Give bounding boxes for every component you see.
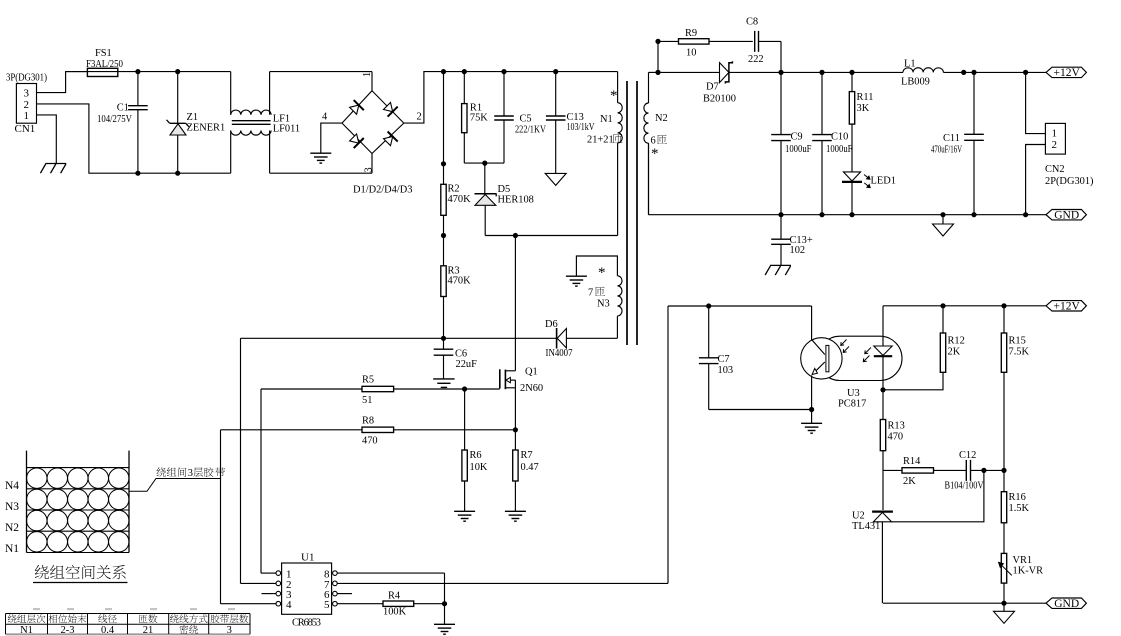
wire CS net R8 <box>221 429 363 431</box>
winding stack diagram <box>27 451 130 553</box>
svg-text:C9: C9 <box>791 132 803 143</box>
svg-text:N4: N4 <box>5 480 19 492</box>
inductor LF1 LF011 common-mode choke <box>231 72 300 174</box>
U1 pin 8 <box>333 571 445 576</box>
winding N2 6turns <box>644 72 668 214</box>
wire DC rail C5 to C13 <box>504 71 556 73</box>
svg-text:75K: 75K <box>470 113 488 124</box>
resistor R5 51 <box>362 375 500 406</box>
node junction VR1 gnd <box>1001 601 1006 606</box>
capacitor C8 222 <box>746 17 781 73</box>
svg-text:N3: N3 <box>5 501 19 513</box>
wire bottom rail C1 to Z1 <box>138 172 178 174</box>
capacitor C7 103 <box>699 306 733 410</box>
diode D2 bridge top-right arm <box>384 103 398 117</box>
U1 pin 3 stub <box>262 591 281 596</box>
node junction Z1 bottom <box>175 171 180 176</box>
diode D3 bridge bottom-right arm <box>384 132 398 146</box>
wire secondary gnd rail <box>649 214 1047 216</box>
svg-text:470: 470 <box>888 432 904 443</box>
capacitor C10 1000uF <box>812 72 852 214</box>
svg-text:N2: N2 <box>655 113 668 124</box>
wire top rail fuse to C1 <box>117 71 138 73</box>
bridge pin 3 label <box>364 167 375 172</box>
table border <box>6 608 251 636</box>
svg-text:R9: R9 <box>685 28 697 39</box>
svg-text:CR6853: CR6853 <box>292 618 321 629</box>
svg-text:1: 1 <box>1052 128 1058 140</box>
svg-text:C1: C1 <box>117 103 129 114</box>
wire bottom rail LF1 to bridge pin3 <box>270 154 372 174</box>
node junction Z1 top <box>175 69 180 74</box>
svg-text:470K: 470K <box>448 276 472 287</box>
flag +12V feedback <box>1046 301 1086 313</box>
svg-text:C8: C8 <box>746 17 758 28</box>
bridge rectifier D1/D2/D4/D3 diamond <box>342 91 404 154</box>
svg-text:3: 3 <box>24 88 30 100</box>
wire bridge pin4 to ground <box>321 112 342 154</box>
svg-text:D7: D7 <box>706 82 719 93</box>
ground earth C13+ <box>765 265 791 275</box>
node junction Q1 drain net <box>513 233 518 238</box>
wire top rail LF1 to bridge pin1 <box>270 72 372 91</box>
flag GND feedback <box>1046 598 1086 610</box>
svg-text:222: 222 <box>748 54 764 65</box>
ground bridge pin4 <box>310 153 331 163</box>
svg-text:FS1: FS1 <box>95 48 112 59</box>
zener Z1 ZENER1 <box>167 72 226 174</box>
wire R1-C5 bottom link <box>464 162 504 164</box>
LED of U3 anode wire <box>882 306 884 346</box>
svg-text:3: 3 <box>188 468 193 479</box>
svg-text:2N60: 2N60 <box>520 383 543 394</box>
svg-text:R6: R6 <box>470 450 482 461</box>
wire N2 bottom corner <box>648 143 650 215</box>
svg-text:5: 5 <box>324 599 330 611</box>
svg-text:2P(DG301): 2P(DG301) <box>1045 176 1094 187</box>
svg-text:R7: R7 <box>521 450 533 461</box>
svg-text:0.47: 0.47 <box>521 462 539 473</box>
wire DC rail R1 to C5 <box>464 71 504 73</box>
winding N3 7turns <box>576 256 622 338</box>
capacitor C5 222/1KV <box>494 72 546 164</box>
label tape note <box>157 467 226 479</box>
node junction C6 top <box>441 336 446 341</box>
svg-text:1.5K: 1.5K <box>1009 503 1030 514</box>
wire CN1 pin1 to ground <box>37 115 57 164</box>
svg-text:F3AL/250: F3AL/250 <box>86 59 123 70</box>
resistor R1 75K <box>462 72 489 164</box>
svg-text:2: 2 <box>1052 139 1058 151</box>
svg-text:R14: R14 <box>903 456 921 467</box>
label N1 row <box>5 543 19 555</box>
node junction C13 top <box>553 69 558 74</box>
svg-text:LF011: LF011 <box>273 124 300 135</box>
fuse FS1 F3AL/250 <box>66 48 138 77</box>
node R9 corner <box>655 39 660 44</box>
svg-text:R4: R4 <box>388 590 401 601</box>
node junction R12 top <box>940 303 945 308</box>
table header row <box>8 614 248 623</box>
wire pin8 to gnd <box>444 573 446 624</box>
svg-text:R13: R13 <box>888 421 905 432</box>
svg-text:GND: GND <box>1054 598 1079 610</box>
wire Q1 drain <box>514 236 516 371</box>
svg-text:R8: R8 <box>362 415 374 426</box>
node junction R11 top <box>849 70 854 75</box>
node junction C10 top <box>819 70 824 75</box>
svg-text:B104/100V: B104/100V <box>945 481 984 492</box>
svg-text:470uF/16V: 470uF/16V <box>931 145 962 156</box>
svg-text:1000uF: 1000uF <box>785 144 812 155</box>
svg-text:1000uF: 1000uF <box>826 144 853 155</box>
wire rail R11 to L1 <box>852 71 903 73</box>
svg-text:4: 4 <box>286 599 292 611</box>
wire top rail Z1 to LF1 <box>178 71 231 73</box>
wire gate net R5 <box>261 388 362 390</box>
svg-text:103: 103 <box>718 365 734 376</box>
wire rail C10 to R11 <box>822 71 852 73</box>
svg-text:VR1: VR1 <box>1013 555 1033 566</box>
U1 pin 5 <box>333 601 383 606</box>
transistor Q1 2N60 MOSFET <box>500 367 543 430</box>
svg-text:C10: C10 <box>831 132 848 143</box>
svg-text:CN1: CN1 <box>15 123 36 135</box>
wire U1 pin1 net riser <box>260 389 262 573</box>
wire C7 bottom link <box>709 409 812 411</box>
svg-text:B20100: B20100 <box>703 94 736 105</box>
svg-text:N1: N1 <box>600 114 613 125</box>
svg-text:N3: N3 <box>597 299 610 310</box>
capacitor C11 470uF/16V <box>931 72 984 214</box>
svg-text:*: * <box>598 265 606 281</box>
svg-text:C7: C7 <box>718 354 730 365</box>
flag +12V output <box>1046 67 1086 79</box>
U1 pin 6 stub <box>333 591 352 596</box>
node junction CN2 pin1 branch <box>1023 70 1028 75</box>
svg-text:3: 3 <box>364 167 375 172</box>
bridge pin 1 label <box>362 72 373 77</box>
svg-text:U1: U1 <box>301 551 314 563</box>
op-amp U1 CR6853 controller <box>282 551 332 628</box>
wire R9 branch riser <box>657 41 659 72</box>
wire TL431 ref link <box>892 470 984 521</box>
resistor R3 470K <box>441 215 471 338</box>
svg-text:4: 4 <box>322 112 328 123</box>
node junction R1 top <box>462 69 467 74</box>
diode D4 bridge bottom-left arm <box>350 134 364 148</box>
wire N2 top to D7 rail <box>649 71 659 73</box>
svg-text:6: 6 <box>651 136 656 147</box>
svg-text:C12: C12 <box>959 450 976 461</box>
resistor R12 2K <box>883 306 965 390</box>
label bridge D1/D2/D4/D3 <box>353 185 412 196</box>
inductor L1 LB009 <box>901 58 1046 87</box>
wire D5/N1 bottom to Q1 drain net <box>485 235 617 237</box>
wire top rail C1 to Z1 <box>138 71 178 73</box>
svg-text:470K: 470K <box>448 194 472 205</box>
label N3 row <box>5 501 19 513</box>
svg-text:2-3: 2-3 <box>61 625 75 636</box>
svg-text:N1: N1 <box>5 543 19 555</box>
wire DC rail C13 to N1 <box>556 71 618 73</box>
svg-text:3: 3 <box>227 625 232 636</box>
svg-text:TL431: TL431 <box>852 521 880 532</box>
ground earth CN1 <box>40 164 66 174</box>
wire +12V rail 2 <box>883 305 1046 307</box>
svg-text:1: 1 <box>362 72 373 77</box>
svg-text:100K: 100K <box>383 607 407 618</box>
svg-text:470: 470 <box>362 436 378 447</box>
wire DC rail to R1 <box>444 71 465 73</box>
svg-text:21: 21 <box>143 625 154 636</box>
U1 pin 7 <box>333 581 668 586</box>
wire CN2 pin1 <box>1026 72 1046 133</box>
node junction gnd tri <box>940 212 945 217</box>
svg-text:22uF: 22uF <box>456 359 478 370</box>
node junction R6 top <box>462 386 467 391</box>
node junction Q1 source <box>513 427 518 432</box>
node junction L1 out <box>961 70 966 75</box>
wire FB net top <box>668 305 812 307</box>
wire CN1 pin3 to fuse <box>37 72 87 93</box>
LED LED1 <box>842 172 896 215</box>
potentiometer VR1 1K-VR <box>999 553 1044 603</box>
resistor R14 2K <box>883 456 966 487</box>
node junction R2-R3 <box>441 233 446 238</box>
svg-text:10K: 10K <box>470 462 488 473</box>
svg-text:C11: C11 <box>943 133 960 144</box>
svg-text:N2: N2 <box>5 522 19 534</box>
diode D6 IN4007 <box>545 319 617 359</box>
capacitor C6 22uF <box>434 338 477 379</box>
ground C6 <box>433 379 454 388</box>
svg-text:3K: 3K <box>857 103 870 114</box>
svg-text:222/1KV: 222/1KV <box>515 124 546 135</box>
ground R6 <box>454 511 475 521</box>
node junction opto emitter <box>809 407 814 412</box>
svg-text:U3: U3 <box>847 388 860 399</box>
leader tape note <box>129 479 221 492</box>
svg-text:7.5K: 7.5K <box>1009 347 1030 358</box>
svg-text:3P(DG301): 3P(DG301) <box>6 72 47 83</box>
svg-text:51: 51 <box>362 395 372 406</box>
svg-text:R5: R5 <box>362 375 374 386</box>
svg-text:LED1: LED1 <box>871 175 896 186</box>
svg-text:*: * <box>610 88 618 104</box>
wire bottom rail Z1 to LF1 <box>178 172 231 174</box>
capacitor C13 103/1kV <box>546 72 595 174</box>
svg-text:*: * <box>651 146 659 162</box>
node junction R4-pin8 <box>442 601 447 606</box>
node junction C12-ref <box>981 468 986 473</box>
svg-text:+12V: +12V <box>1054 301 1081 313</box>
svg-text:R15: R15 <box>1009 336 1026 347</box>
ground opto emitter <box>801 410 822 434</box>
node junction C1 top <box>135 69 140 74</box>
ground triangle C13 <box>545 173 566 185</box>
transformer core <box>627 81 637 345</box>
resistor R9 10 <box>658 28 753 58</box>
capacitor C12 B104/100V <box>945 450 1005 492</box>
svg-text:IN4007: IN4007 <box>546 348 573 359</box>
svg-text:7: 7 <box>588 288 593 299</box>
LED of U3 <box>874 346 892 390</box>
svg-text:D1/D2/D4/D3: D1/D2/D4/D3 <box>353 185 412 196</box>
diode D5 HER108 <box>475 163 534 235</box>
svg-text:1K-VR: 1K-VR <box>1013 566 1044 577</box>
shunt regulator U2 TL431 <box>852 511 893 604</box>
diode D7 B20100 schottky <box>658 61 781 104</box>
label N2 row <box>5 522 19 534</box>
svg-text:R12: R12 <box>948 336 965 347</box>
node junction CN2 pin2 gnd <box>1023 212 1028 217</box>
node junction LED cathode <box>880 387 885 392</box>
U1 pin 1 <box>261 571 281 576</box>
connector CN1 3P(DG301) <box>6 72 47 135</box>
resistor R8 470 <box>362 415 515 446</box>
svg-text:104/275V: 104/275V <box>97 114 132 125</box>
ground R7 <box>505 511 526 521</box>
ground U1/R4 <box>434 624 455 634</box>
node junction R9 branch <box>655 70 660 75</box>
resistor R11 3K <box>849 72 873 171</box>
svg-text:102: 102 <box>790 245 806 256</box>
U1 pin 4 <box>221 601 281 606</box>
resistor R2 470K <box>441 72 471 216</box>
svg-text:2K: 2K <box>903 476 916 487</box>
winding N1 21+21turns <box>587 72 623 236</box>
wire pin7 riser to FB net <box>667 306 669 583</box>
svg-text:0.4: 0.4 <box>101 625 115 636</box>
capacitor C9 1000uF <box>771 72 811 214</box>
node junction C9 top <box>778 70 783 75</box>
optocoupler U3 PC817 <box>801 306 902 410</box>
resistor R13 470 <box>880 390 905 510</box>
wire U1 pin4 net riser <box>220 430 222 604</box>
ground N3 top <box>566 276 587 286</box>
resistor R7 0.47 <box>513 430 539 512</box>
node junction R15-R16 <box>1001 468 1006 473</box>
svg-text:1: 1 <box>24 110 30 122</box>
resistor R4 100K <box>383 590 445 617</box>
node junction C13b top <box>778 212 783 217</box>
svg-text:HER108: HER108 <box>498 195 534 206</box>
svg-text:21+21: 21+21 <box>587 135 614 146</box>
diode D1 bridge top-left arm <box>350 100 364 114</box>
flag GND secondary <box>1046 210 1086 222</box>
svg-text:PC817: PC817 <box>838 399 866 410</box>
svg-text:GND: GND <box>1054 210 1079 222</box>
node junction C7 top <box>706 303 711 308</box>
svg-text:ZENER1: ZENER1 <box>187 122 226 133</box>
U1 pin 2 <box>241 581 281 586</box>
resistor R15 7.5K <box>1001 306 1029 471</box>
wire rail C9 to C10 <box>781 71 822 73</box>
title winding space <box>33 565 128 583</box>
node junction R15 top <box>1001 303 1006 308</box>
wire CN2 pin2 <box>1026 145 1046 215</box>
wire CN1 pin2 to bottom rail <box>37 104 138 173</box>
node junction R2 top rail <box>441 69 446 74</box>
node junction C10 bottom <box>819 212 824 217</box>
table data row N1 <box>20 625 232 636</box>
svg-text:2: 2 <box>417 112 422 123</box>
svg-text:103/1kV: 103/1kV <box>567 122 595 133</box>
svg-text:10: 10 <box>686 47 696 58</box>
node junction C5 top <box>501 69 506 74</box>
capacitor C1 104/275V <box>97 72 148 174</box>
wire VDD net D6 to pin2 net <box>241 337 557 339</box>
svg-text:R16: R16 <box>1009 492 1026 503</box>
svg-text:D6: D6 <box>545 319 558 330</box>
node junction C1 bottom <box>135 171 140 176</box>
resistor R6 10K <box>462 389 488 511</box>
node junction C11 top <box>971 70 976 75</box>
svg-text:2K: 2K <box>948 347 961 358</box>
wire bridge pin2 to DC rail <box>404 72 444 124</box>
wire GND rail 2 <box>883 602 1046 604</box>
node junction D5 top <box>482 161 487 166</box>
wire U1 pin2 net riser <box>240 338 242 583</box>
connector CN2 2P(DG301) <box>1045 123 1094 187</box>
ground triangle secondary <box>933 215 954 236</box>
node junction LED1 bottom <box>849 212 854 217</box>
svg-text:CN2: CN2 <box>1045 164 1065 175</box>
label N4 <box>5 480 19 492</box>
resistor R16 1.5K <box>1001 470 1029 559</box>
svg-text:LB009: LB009 <box>901 77 930 88</box>
svg-text:N1: N1 <box>20 625 33 636</box>
capacitor C13+ 102 <box>771 215 813 266</box>
svg-text:R11: R11 <box>857 92 874 103</box>
svg-text:C5: C5 <box>520 114 532 125</box>
svg-text:Q1: Q1 <box>525 367 538 378</box>
ground triangle feedback <box>994 603 1015 623</box>
node junction C11 bottom <box>971 212 976 217</box>
svg-text:+12V: +12V <box>1054 67 1081 79</box>
svg-text:L1: L1 <box>904 58 916 69</box>
